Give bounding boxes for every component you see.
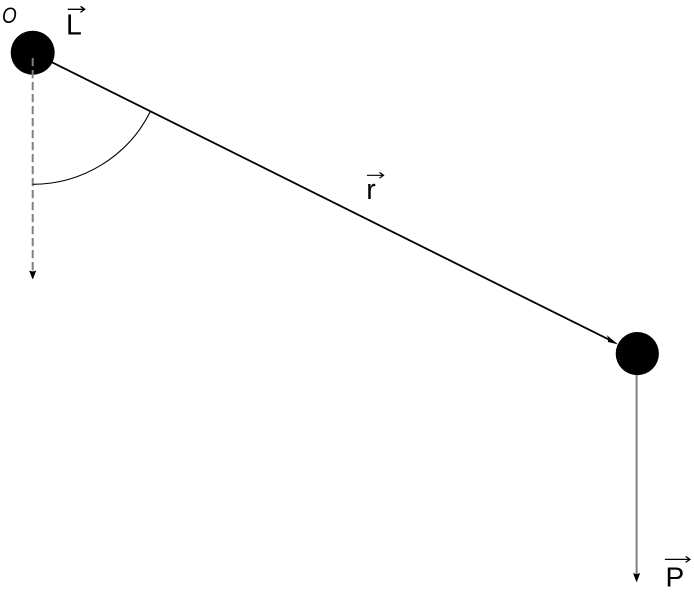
vector label r <box>366 172 383 206</box>
weight vector P line <box>636 375 638 574</box>
wire: position vector r line <box>33 53 612 341</box>
arrowhead of dashed reference line <box>30 271 36 279</box>
dashed vertical reference line from O <box>32 58 34 271</box>
arrowhead of P vector <box>633 573 639 581</box>
svg-text:O: O <box>2 3 17 28</box>
svg-text:L: L <box>66 10 82 42</box>
vector label P <box>665 556 690 592</box>
angle arc between dashed line and r <box>33 111 151 184</box>
svg-text:P: P <box>666 561 685 592</box>
svg-text:r: r <box>366 174 376 206</box>
mass ball at pivot O <box>11 31 55 75</box>
arrowhead of r vector <box>607 336 617 344</box>
mass ball m <box>616 332 659 375</box>
vector label L <box>66 6 85 41</box>
